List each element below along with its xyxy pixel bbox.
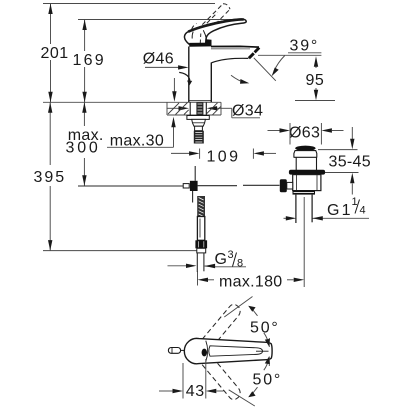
spout top line: [211, 45, 259, 48]
faucet body sides: [188, 47, 190, 103]
dashed lever rotated down: [197, 356, 240, 400]
solid handle top view: [184, 338, 272, 363]
rod cross fitting: [183, 184, 189, 188]
side knob dark: [280, 179, 287, 192]
drain center line: [303, 197, 305, 225]
threaded stud dark: [194, 131, 204, 144]
hose tails: [196, 253, 198, 272]
tick at handle tip: [268, 338, 270, 347]
dashed lever rotated up: [197, 304, 240, 348]
deck break edge right: [220, 102, 222, 115]
svg-text:G1: G1: [327, 202, 353, 219]
temp stub: [168, 348, 180, 354]
svg-text:50°: 50°: [250, 319, 280, 336]
handle inner center line: [256, 350, 269, 352]
flange neck walls: [295, 157, 297, 170]
handle inner face outline: [209, 346, 263, 356]
deck hatching right: [207, 103, 221, 115]
169 arrows: [82, 20, 86, 31]
max300 arrows: [82, 102, 86, 113]
svg-text:43: 43: [186, 383, 205, 400]
stream arc arrow under spout: [231, 75, 245, 82]
handle inner cap arc: [206, 341, 208, 362]
201 arrows: [48, 4, 52, 15]
o-ring dark band: [289, 170, 325, 175]
hidden stem dashes in neck: [199, 34, 202, 45]
hose collar: [197, 248, 206, 253]
395 arrows: [48, 102, 52, 113]
arrowheads group: [48, 4, 87, 251]
lever inner crease: [203, 30, 206, 39]
lower 50 deg arc: [253, 387, 258, 393]
lever top edge thick: [188, 19, 244, 31]
svg-text:Ø63: Ø63: [289, 125, 320, 142]
deck bottom line: [167, 114, 221, 116]
horizontal pop-up rod: [78, 185, 183, 187]
locknut: [192, 119, 206, 126]
39 ref line: [258, 54, 321, 56]
svg-text:95: 95: [306, 72, 325, 89]
pop-up rod vertical: [194, 166, 196, 181]
handle pivot dark dot: [202, 349, 207, 357]
aerator dark face: [255, 48, 260, 53]
hose end line: [43, 250, 203, 252]
svg-text:109: 109: [207, 149, 241, 166]
upper 50 deg angled line: [224, 297, 252, 318]
dim 395 line: [49, 102, 51, 165]
dim max300 line: [83, 102, 85, 126]
dashed open lever: [192, 4, 231, 35]
svg-text:1: 1: [352, 196, 358, 208]
ext line top of lever at rest: [78, 19, 241, 21]
tailpipe: [295, 195, 297, 223]
shank thread dark: [196, 102, 203, 115]
svg-text:3: 3: [228, 249, 234, 261]
dim 201 line: [50, 4, 52, 45]
flange skirt: [294, 151, 317, 158]
hose nut dark: [195, 240, 207, 248]
39 angled line: [254, 58, 276, 81]
svg-text:max.180: max.180: [219, 273, 282, 290]
svg-text:169: 169: [73, 52, 106, 69]
upper 50 deg arc: [253, 310, 258, 316]
svg-text:8: 8: [237, 258, 243, 270]
bottom nut band: [293, 191, 316, 195]
spout top second line: [211, 48, 250, 50]
svg-text:4: 4: [360, 205, 366, 217]
svg-text:201: 201: [41, 45, 69, 62]
lower 50 deg angled line: [229, 390, 255, 406]
svg-text:50°: 50°: [253, 371, 283, 388]
drain body: [293, 175, 321, 191]
washer under deck: [187, 116, 209, 120]
ext line top of open lever: [43, 3, 215, 5]
shank through deck: [190, 102, 206, 115]
39 arc with arrow: [274, 56, 285, 72]
spout underside: [211, 58, 248, 63]
svg-text:39°: 39°: [290, 38, 320, 55]
deck top line right segment: [295, 100, 335, 102]
plug dome dark: [295, 146, 315, 151]
swing arc left of body: [179, 72, 190, 83]
flex hose braid: [197, 196, 205, 217]
stud fitting: [195, 126, 203, 131]
hose connector shell: [197, 217, 204, 241]
39 label underline: [288, 52, 321, 54]
svg-text:Ø46: Ø46: [143, 50, 174, 67]
neck corner dark: [206, 39, 212, 46]
deck break edge left: [166, 102, 168, 115]
lever handle: [184, 19, 246, 45]
svg-text:G: G: [215, 251, 228, 268]
svg-text:395: 395: [34, 169, 67, 186]
body cap dark band: [189, 43, 211, 47]
svg-text:35-45: 35-45: [329, 154, 371, 171]
dim 169 line: [84, 20, 86, 52]
svg-text:Ø34: Ø34: [232, 103, 263, 120]
body base line: [189, 100, 212, 102]
svg-text:300: 300: [66, 140, 101, 157]
deck hatching left: [168, 103, 189, 115]
deck top line: [43, 101, 221, 103]
